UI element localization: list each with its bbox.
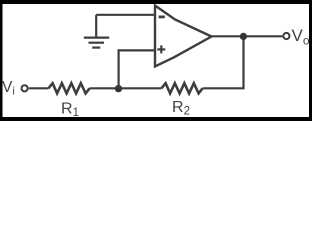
wire R1 to junction node — [90, 87, 119, 89]
op-amp U1 — [155, 6, 212, 67]
op-amp U1 non-inverting input plus sign — [157, 45, 165, 53]
node A : junction of R1, R2 and + input — [115, 85, 122, 92]
wire Vi terminal to R1 — [29, 87, 49, 89]
terminal Vo output — [283, 33, 289, 39]
resistor R2 — [162, 83, 203, 93]
wire - input : ground stem top right to op-amp — [96, 14, 155, 16]
ground — [84, 15, 109, 48]
wire R2 right end up to output node — [203, 36, 244, 88]
terminal Vi input — [22, 85, 28, 91]
op-amp U1 inverting input minus sign — [159, 15, 165, 18]
wire junction to R2 — [119, 87, 162, 89]
frame — [0, 0, 312, 4]
wire + input : junction up and right to op-amp — [119, 50, 155, 88]
node B : output node — [240, 33, 247, 40]
wire op-amp output to Vo terminal — [212, 35, 283, 37]
resistor R1 — [49, 83, 90, 93]
